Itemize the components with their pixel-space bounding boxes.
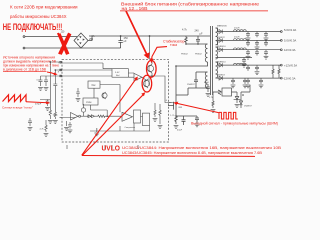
svg-text:Сигнал в виде "пилы": Сигнал в виде "пилы" <box>2 106 33 110</box>
svg-text:5.0V/0.3A: 5.0V/0.3A <box>284 39 296 43</box>
svg-text:MUR410: MUR410 <box>217 46 226 48</box>
svg-text:µF: µF <box>200 33 203 36</box>
svg-text:К сети 220В при моделировании: К сети 220В при моделировании <box>10 5 78 10</box>
svg-text:Выходной сигнал - прямоугольны: Выходной сигнал - прямоугольные импульсы… <box>191 121 278 125</box>
svg-text:HV602: HV602 <box>195 54 202 56</box>
svg-text:5.0V/4.3A: 5.0V/4.3A <box>284 28 296 32</box>
svg-text:27µH: 27µH <box>234 28 240 30</box>
svg-text:UC3843/UC3845: Напряжение вклю: UC3843/UC3845: Напряжение включения 8.4В… <box>122 151 263 155</box>
svg-text:работы микросхемы UC384X: работы микросхемы UC384X <box>10 14 67 19</box>
svg-text:Ref: Ref <box>116 75 120 77</box>
svg-text:MUR410: MUR410 <box>217 62 226 64</box>
svg-text:1N5822: 1N5822 <box>217 37 225 39</box>
svg-text:тока: тока <box>170 43 177 47</box>
svg-text:+12V/0.3A: +12V/0.3A <box>284 63 297 67</box>
svg-text:HV602: HV602 <box>181 54 188 56</box>
svg-text:UC3842/UC3844: Напряжение вклю: UC3842/UC3844: Напряжение включения 16В,… <box>122 146 282 150</box>
svg-text:1N4937: 1N4937 <box>187 84 195 86</box>
svg-text:27µH: 27µH <box>234 37 240 39</box>
svg-text:4.7k: 4.7k <box>182 29 187 32</box>
svg-text:в диапазоне от 11В до 16В: в диапазоне от 11В до 16В <box>3 68 47 72</box>
svg-text:12V/0.3A: 12V/0.3A <box>284 48 296 52</box>
svg-text:НЕ ПОДКЛЮЧАТЬ!!!: НЕ ПОДКЛЮЧАТЬ!!! <box>3 22 63 32</box>
svg-text:250: 250 <box>89 38 94 41</box>
svg-text:MBR2535: MBR2535 <box>217 26 228 28</box>
svg-text:UVLO: UVLO <box>102 144 121 153</box>
svg-text:47µF: 47µF <box>177 130 183 132</box>
svg-text:µF: µF <box>124 40 127 43</box>
svg-text:1N5818: 1N5818 <box>217 75 225 77</box>
svg-text:68pF: 68pF <box>204 82 210 84</box>
svg-text:PWM: PWM <box>86 102 92 104</box>
svg-text:1N4937: 1N4937 <box>244 106 252 108</box>
svg-text:Comparator: Comparator <box>125 126 136 129</box>
svg-text:5.0V: 5.0V <box>115 72 120 74</box>
svg-text:-12V/0.3A: -12V/0.3A <box>283 76 296 80</box>
svg-text:470pF: 470pF <box>35 104 42 106</box>
